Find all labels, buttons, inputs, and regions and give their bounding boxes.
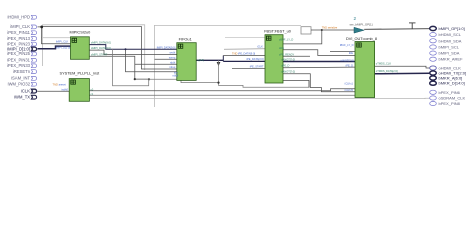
wire A.out2 to FIFO wrclk	[89, 50, 177, 54]
port symbol iMIPI_CLK	[31, 25, 36, 29]
block DVI_OUT body	[355, 42, 375, 98]
node junction out3	[134, 78, 136, 80]
svg-text:iPEX_PIN31: iPEX_PIN31	[7, 58, 31, 63]
block FBST icon	[266, 36, 271, 41]
svg-text:oTMDS_CLK: oTMDS_CLK	[376, 61, 392, 65]
port symbol iPEX_PIN31	[31, 58, 36, 62]
svg-text:iPE_START: iPE_START	[250, 65, 264, 69]
wire q net drop down and under FBST	[219, 60, 310, 87]
svg-text:TND serialize: TND serialize	[322, 26, 338, 30]
port symbol bMKR_A bold	[430, 76, 437, 80]
hierarchy box right (FIFO/FBST region)	[154, 25, 301, 107]
hierarchy box MIPICSI2:u0	[43, 25, 145, 70]
svg-text:bMIPI_SCL: bMIPI_SCL	[439, 45, 460, 50]
svg-text:oSDRAM_CLK: oSDRAM_CLK	[439, 96, 466, 101]
node junction on qdrop	[217, 82, 219, 84]
node junction aclr tap	[125, 48, 127, 50]
port symbol iPEX_PIN13	[31, 37, 36, 41]
svg-text:oPE_D: oPE_D	[281, 63, 289, 67]
port symbol iWM_TX bold	[31, 95, 36, 99]
svg-text:iMIPI_DATA[9:0]: iMIPI_DATA[9:0]	[157, 46, 176, 50]
node junction serializer branch	[321, 29, 323, 31]
buffer triangle serializer	[354, 27, 364, 33]
wire iMIPI_CLK to FIFO rdreq	[43, 27, 177, 70]
block FIFOu1 body	[177, 43, 196, 81]
block MIPICSI2u0 icon	[72, 38, 77, 43]
svg-text:oANOT[7:0]: oANOT[7:0]	[281, 57, 295, 61]
svg-text:iMIPI_CLK: iMIPI_CLK	[56, 40, 69, 44]
wire DVI oTMDS_CLK to port	[375, 66, 430, 68]
svg-text:iCLK: iCLK	[21, 88, 30, 93]
wire rdclk feed	[135, 63, 177, 65]
wire DVI pin iBUF short	[330, 51, 355, 53]
port symbol bPEX_PIN6	[430, 90, 437, 94]
svg-text:oMIPI_DATA[9:0]: oMIPI_DATA[9:0]	[91, 40, 111, 44]
block SYSTEM_PLL body	[69, 79, 89, 102]
svg-text:rdfull: rdfull	[172, 73, 178, 77]
output ports right column	[439, 26, 467, 106]
port symbol iPEX_PIN33	[31, 64, 36, 68]
wire A.out3 to FIFO rdclk	[89, 56, 149, 79]
svg-text:iMIPI_CLK: iMIPI_CLK	[10, 24, 30, 29]
wire FBST oPE_READY stub	[283, 55, 310, 57]
svg-text:oBUF_LY_D: oBUF_LY_D	[279, 38, 293, 42]
svg-text:iBUF_LY_D: iBUF_LY_D	[340, 43, 354, 47]
block MIPICSI2u0 body	[71, 37, 90, 60]
port symbol bMKR_D bold	[430, 81, 437, 85]
wire small box to buffer	[311, 29, 354, 31]
svg-text:bHDMI_SCL: bHDMI_SCL	[439, 32, 462, 37]
wire FBST.out6 stub	[283, 80, 309, 87]
tie-off T marker	[409, 23, 416, 29]
svg-text:bPEX_PIN6: bPEX_PIN6	[439, 90, 461, 95]
svg-text:iPEX_PIN33: iPEX_PIN33	[7, 63, 31, 68]
wire iMIPI_CLK from port	[38, 27, 71, 44]
wire clk net down-left-up to FBST iCLK	[113, 49, 149, 86]
svg-text:MIPICSI2u0: MIPICSI2u0	[70, 31, 91, 35]
input ports left column	[7, 15, 31, 100]
svg-text:iPE_D: iPE_D	[346, 63, 353, 67]
port symbol iRESETn	[31, 70, 36, 74]
wire to FBST iPE_DATA9	[223, 55, 265, 57]
svg-text:inclk0: inclk0	[61, 87, 68, 91]
port symbol iHDMI_HPD	[31, 15, 36, 19]
svg-text:DVI_OUT:comb_8: DVI_OUT:comb_8	[346, 37, 377, 41]
node junction clk dot	[148, 78, 150, 80]
svg-text:iCLK: iCLK	[257, 45, 263, 49]
wire PLL.out2 to DVI bottom pin	[89, 94, 355, 96]
svg-text:iPE_DATA[3:0]: iPE_DATA[3:0]	[246, 57, 263, 61]
svg-text:iSAM_INT: iSAM_INT	[11, 76, 30, 81]
svg-text:bHDMI_SDA: bHDMI_SDA	[439, 38, 462, 43]
svg-text:iDE: iDE	[349, 51, 353, 55]
wire FBST.out1 to DVI	[283, 30, 322, 44]
svg-text:iMIPI_D[1:0]: iMIPI_D[1:0]	[56, 45, 71, 49]
svg-text:bMKR_D[14:0]: bMKR_D[14:0]	[439, 81, 465, 86]
port symbol oHDMI_TX bold	[430, 71, 437, 75]
svg-text:oMIPI_START: oMIPI_START	[91, 53, 108, 57]
svg-text:wrreq: wrreq	[169, 55, 176, 59]
wire PLL.out3 oSDRAM_CLK long	[89, 97, 429, 99]
svg-text:iPEX_PIN25: iPEX_PIN25	[7, 51, 31, 56]
wire stub FIFO wrreq	[155, 58, 177, 60]
svg-text:iCLKx1: iCLKx1	[345, 82, 354, 86]
wire iCLK to PLL	[38, 90, 70, 92]
wire iMIPI_D bus	[38, 46, 71, 49]
wire faint clock net y37.7	[42, 37, 71, 39]
port symbol oSDRAM_CLK	[430, 96, 437, 100]
port symbol iCLK bold	[31, 89, 36, 93]
svg-text:TND areset: TND areset	[53, 83, 67, 87]
svg-text:iCLKx5: iCLKx5	[345, 88, 354, 92]
node junction arrow on q net	[217, 62, 221, 66]
svg-text:oDE: oDE	[279, 46, 284, 50]
port symbol bMKR_AREF	[430, 57, 437, 61]
svg-text:iPEX_PIN11: iPEX_PIN11	[7, 30, 30, 35]
port symbol iMIPI_D bold	[31, 47, 36, 51]
svg-text:iANOT[7:0]: iANOT[7:0]	[341, 59, 354, 63]
port symbol bMIPI_SCL	[430, 45, 437, 49]
svg-text:bMIPI_GP[1:0]: bMIPI_GP[1:0]	[439, 26, 465, 31]
wire aclr tap	[126, 49, 177, 72]
wire clock from PLL up to FBST iCLK	[224, 48, 265, 51]
wire q riser	[222, 56, 224, 62]
svg-text:iWM_TX: iWM_TX	[14, 95, 30, 100]
wire DVI oTMDS_DATA bus to port	[375, 72, 430, 75]
wire FBST.out3 bus to DVI	[283, 61, 355, 63]
port symbol bMIPI_GP bold	[430, 26, 437, 30]
svg-text:bPEX_PIN8: bPEX_PIN8	[439, 101, 461, 106]
wire FBST.out2 to DVI iDE	[283, 50, 355, 56]
svg-text:iWM_PIO32: iWM_PIO32	[8, 82, 31, 87]
svg-text:rdreq: rdreq	[169, 65, 176, 69]
wire FBST.out5 down and to DVI	[283, 74, 355, 92]
svg-text:oTMDS_DATA[2:0]: oTMDS_DATA[2:0]	[376, 69, 398, 73]
wire bus to FBST iPE_DATA3	[223, 60, 265, 62]
svg-text:rdclk: rdclk	[170, 60, 176, 64]
port symbol bHDMI_SCL	[430, 33, 437, 37]
svg-text:FBST:FBST_u0: FBST:FBST_u0	[264, 29, 291, 33]
port symbol iPEX_PIN25	[31, 52, 36, 56]
wire PLL.out1 to DVI lower pin	[89, 89, 355, 91]
svg-text:SYSTEM_PLLPLL_inst: SYSTEM_PLLPLL_inst	[60, 71, 101, 75]
wire FBST iPE_START	[232, 68, 265, 70]
svg-text:2: 2	[354, 16, 357, 21]
svg-text:TND iPE_DATA[9:0]: TND iPE_DATA[9:0]	[232, 52, 255, 56]
block FIFOu1 icon	[178, 44, 183, 49]
output port symbols	[430, 26, 437, 105]
svg-text:q[9:0]: q[9:0]	[198, 58, 205, 62]
svg-text:bMKR_AREF: bMKR_AREF	[439, 57, 464, 62]
port symbol oHDMI_CLK	[430, 66, 437, 70]
svg-text:FIFOu1: FIFOu1	[179, 37, 192, 41]
svg-text:oPE_READY: oPE_READY	[279, 53, 295, 57]
svg-text:ser_bMIPI_GP[1]: ser_bMIPI_GP[1]	[350, 22, 373, 26]
wire clk net dot to qdrop	[149, 79, 219, 82]
svg-text:iPEX_PIN13: iPEX_PIN13	[7, 36, 31, 41]
wire FIFO q bus to FBST	[196, 59, 223, 61]
wire A.out1 bus to FIFO data	[89, 45, 177, 50]
port symbol bHDMI_SDA	[430, 39, 437, 43]
port symbol bMIPI_SDA	[430, 51, 437, 55]
block FBST body	[265, 35, 283, 83]
port symbol iWM_PIO32	[31, 82, 36, 86]
port symbol bPEX_PIN8	[430, 101, 437, 105]
svg-text:iHDMI_HPD: iHDMI_HPD	[7, 15, 30, 20]
block SYSTEM_PLL icon	[70, 80, 75, 85]
svg-text:wrclk: wrclk	[169, 51, 176, 55]
svg-text:iRESETn: iRESETn	[13, 69, 31, 74]
svg-text:oMIPI_DATA[3:0]: oMIPI_DATA[3:0]	[91, 46, 111, 50]
block DVI_OUT icon	[356, 43, 361, 48]
input port symbols	[31, 15, 36, 99]
port symbol iPEX_PIN11	[31, 31, 36, 35]
wire FBST.out4 to DVI	[283, 66, 355, 69]
small box lcell	[301, 27, 311, 34]
node junction dot	[40, 26, 43, 29]
svg-text:oANOT[7:0]: oANOT[7:0]	[281, 70, 295, 74]
wire buffer to bMIPI_GP port	[364, 28, 429, 31]
svg-text:bMIPI_SDA: bMIPI_SDA	[439, 51, 460, 56]
port symbol iPEX_PIN23	[31, 42, 36, 46]
port symbol iSAM_INT	[31, 77, 36, 81]
